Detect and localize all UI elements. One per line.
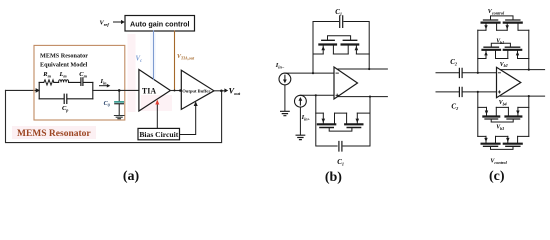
wire: top output (500, 69, 545, 71)
wire: current source to ground (284, 85, 286, 111)
svg-text:Output Buffer: Output Buffer (182, 89, 210, 94)
wire: bottom input wire (300, 94, 334, 96)
wire: Vref arrow into AGC box (114, 21, 122, 23)
wire: bottom input after C2 (463, 91, 497, 93)
rail 2 segments (mid) (478, 58, 529, 60)
rail segments (316, 112, 370, 114)
gate tie wire to Vcontrol (491, 16, 514, 20)
node: junction dot at TIA output tap (174, 90, 176, 92)
wire: bias to output buffer (black arrow) (180, 105, 196, 135)
wire: current source to ground (299, 107, 301, 135)
channel bars (483, 115, 521, 117)
capacitor C1 (top, plates) (340, 16, 343, 28)
wire: TIA output to buffer (170, 90, 181, 92)
current source Iin- (circle, down arrow) (279, 73, 291, 85)
rail 1 segments (top side) (478, 29, 529, 31)
wire: bottom side right + right vertical of bottom feedback (343, 97, 370, 146)
gate bars (322, 39, 357, 41)
wire: input wire from loop to resonator network (6, 89, 37, 91)
svg-text:MEMS Resonator: MEMS Resonator (17, 129, 91, 139)
wire: right vertical (528, 30, 530, 69)
channel bars (319, 43, 358, 45)
op-amp TIA triangle (139, 70, 171, 112)
wire: V_TIA_out sense line (brown) from AGC to TIA output (174, 31, 176, 91)
node dot (369, 96, 371, 98)
wire: top input wire (285, 72, 334, 74)
rail B segments (bottom side) (478, 135, 529, 137)
channel bars (482, 143, 522, 145)
auto gain control box (125, 16, 195, 32)
capacitor C2 (bottom input) (459, 87, 462, 96)
channel bars (483, 49, 522, 51)
svg-text:Vb2: Vb2 (500, 62, 508, 68)
wire: buffer output to Vout (214, 90, 225, 92)
wire: left vertical (477, 92, 479, 136)
svg-text:Vb3: Vb3 (496, 125, 504, 131)
wire: resonator output to TIA input (93, 89, 139, 91)
channel bars (318, 123, 363, 125)
svg-text:Vcontrol: Vcontrol (490, 159, 507, 165)
current source Iin+ (circle, up arrow) (295, 95, 307, 107)
wire: left vertical (477, 30, 479, 73)
wire: bottom output (338, 96, 388, 98)
node: output junction dot (220, 90, 223, 93)
svg-text:Equivalent Model: Equivalent Model (40, 62, 88, 69)
wire: left vertical of bottom feedback (316, 95, 337, 146)
svg-text:(b): (b) (325, 170, 342, 185)
wire: top input after C2 (463, 72, 497, 74)
arrowhead to Vout (224, 88, 228, 92)
gate tie wire to Vb1 (491, 43, 510, 46)
ground (under Iin-) (281, 111, 290, 115)
transistor pair Vb1 (arrows up on outer legs) (486, 51, 518, 59)
wire: bias to TIA (red arrow) (156, 102, 158, 129)
channel bars (482, 22, 522, 24)
inductor Lm (coil) (59, 80, 69, 83)
svg-text:Vb1: Vb1 (496, 38, 504, 44)
wire: top input (436, 72, 459, 74)
op-amp U3 (fully differential) (334, 67, 358, 99)
wire: Vc control line (blue) from AGC to TIA (153, 31, 155, 79)
rail segments (313, 53, 369, 55)
wire: top output (337, 68, 388, 70)
gate tie wire (491, 120, 513, 122)
transistor pair Vcontrol (bottom, arrows on legs 1 and 3) (486, 136, 518, 142)
node dot (368, 68, 370, 70)
ground (under Iin+) (296, 135, 305, 139)
rail A segments (478, 106, 529, 108)
pin + (498, 91, 500, 93)
legs with arrows (323, 113, 357, 123)
gate tie wire to Vcontrol (491, 147, 514, 150)
svg-text:MEMS Resonator: MEMS Resonator (40, 53, 88, 60)
capacitor Cm (series plates) (81, 78, 83, 86)
svg-text:Vcontrol: Vcontrol (488, 9, 505, 15)
gate tie wire (329, 128, 352, 131)
node: junction dot at C0 tap (118, 89, 121, 92)
capacitor C0 (teal, to ground) (118, 90, 120, 101)
bias circuit box (138, 128, 180, 139)
gate bars (485, 118, 520, 120)
pin - (336, 72, 338, 74)
node dot (315, 94, 317, 96)
RLC network rectangle (left + right sides, partial top/bottom) (39, 82, 93, 98)
op-amp U4 (497, 67, 521, 97)
wire: top side right + right vertical of top feedback (344, 22, 369, 70)
pin - (498, 72, 500, 74)
gate bars (484, 145, 520, 147)
pin + (336, 94, 338, 96)
svg-text:Auto gain control: Auto gain control (130, 19, 190, 28)
svg-text:Vb4: Vb4 (499, 100, 507, 106)
svg-text:TIA: TIA (142, 87, 156, 96)
ground (under C0) (114, 116, 124, 119)
gate bars (484, 19, 520, 21)
wire: bottom output (500, 95, 544, 97)
capacitor Cp (parallel branch plates) (64, 94, 67, 103)
resistor Rm (zigzag) (44, 80, 54, 85)
wire: oscillator feedback loop (left vertical, bottom, right vertical) (6, 90, 222, 142)
node A: arrowhead into resonator network (36, 88, 40, 93)
wire: right vertical (528, 96, 530, 136)
MEMS Resonator equivalent-model box (tan border) (34, 45, 125, 120)
gate tie wire (328, 36, 351, 40)
node dot (312, 72, 314, 74)
svg-text:C0: C0 (104, 101, 111, 108)
transistor pair Vcontrol (top, arrows down on legs 1 and 3) (486, 24, 518, 31)
svg-text:Bias Circuit: Bias Circuit (139, 130, 178, 139)
gate bars (484, 46, 520, 48)
capacitor C2 (top input) (459, 68, 462, 77)
gate bars (320, 127, 361, 129)
wire: left vertical of top feedback (313, 22, 339, 74)
transistor pair Vb4-side (arrows down on outer legs) (487, 107, 518, 115)
op-amp U2 output buffer triangle (181, 70, 214, 109)
svg-text:VTIA,out: VTIA,out (177, 54, 195, 60)
svg-text:(c): (c) (489, 169, 505, 184)
wire: bottom input (436, 91, 459, 93)
capacitor C1 (bottom, plates) (339, 142, 342, 152)
svg-text:(a): (a) (123, 169, 140, 184)
legs with arrows (323, 46, 356, 54)
